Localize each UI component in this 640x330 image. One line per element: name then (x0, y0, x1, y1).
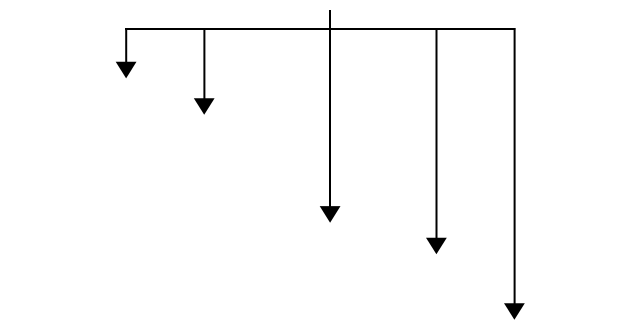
arrow 4 (426, 28, 447, 254)
wire: horizontal bus (125, 28, 516, 30)
arrow 5 (rightmost, longest drop) (504, 28, 525, 320)
arrow 2 (194, 28, 215, 115)
arrow 3 (center, continues the stem) (320, 29, 341, 223)
arrow 1 (leftmost, short drop) (116, 28, 137, 78)
wire: top stem into junction (329, 10, 331, 29)
